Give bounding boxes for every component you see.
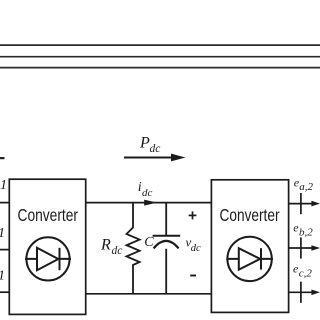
svg-text:P: P [139,135,150,152]
svg-text:,1: ,1 [0,178,7,193]
svg-text:C: C [144,235,154,250]
svg-text:dc: dc [142,187,153,199]
svg-text:b,2: b,2 [299,226,313,238]
svg-text:c,2: c,2 [299,267,313,279]
svg-text:dc: dc [150,143,161,155]
svg-text:dc: dc [191,243,201,254]
svg-text:Converter: Converter [220,205,280,225]
svg-text:dc: dc [112,245,123,257]
svg-text:a,2: a,2 [299,181,313,193]
svg-text:,1: ,1 [0,226,5,241]
svg-text:Converter: Converter [18,205,79,225]
svg-text:,1: ,1 [0,268,5,283]
svg-text:R: R [100,236,111,253]
